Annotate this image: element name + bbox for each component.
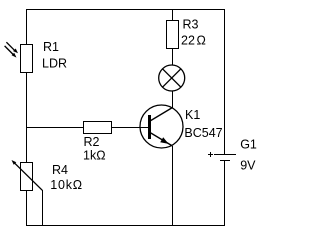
svg-text:9V: 9V <box>240 159 256 173</box>
wire left branch middle <box>26 72 27 163</box>
battery plus sign <box>208 152 213 157</box>
svg-text:K1: K1 <box>185 108 200 122</box>
resistor R1 (LDR) body <box>21 45 33 73</box>
wire R2 left lead <box>26 127 84 128</box>
battery G1 negative plate <box>220 160 230 161</box>
wire R2 right lead <box>111 127 149 128</box>
wire lamp to collector <box>172 91 173 108</box>
wire top rail <box>26 9 225 10</box>
resistor R2 body <box>84 122 112 134</box>
svg-text:1kΩ: 1kΩ <box>83 149 106 163</box>
transistor K1 base bar <box>148 115 151 139</box>
svg-text:10kΩ: 10kΩ <box>50 178 83 192</box>
wire left branch lower <box>26 190 27 226</box>
wire emitter to bottom rail <box>172 146 173 226</box>
wire left branch upper <box>26 9 27 45</box>
potentiometer R4 wiper arrow <box>12 160 43 190</box>
battery G1 positive plate <box>214 154 236 155</box>
svg-text:R2: R2 <box>84 135 100 149</box>
wire R3 top lead <box>172 9 173 21</box>
svg-text:R1: R1 <box>43 40 59 54</box>
light arrow 2 into R1 <box>5 46 17 58</box>
svg-text:BC547: BC547 <box>184 126 222 140</box>
wire bottom rail <box>26 225 225 226</box>
svg-text:R4: R4 <box>52 163 68 177</box>
transistor K1 emitter arrowhead <box>160 137 168 144</box>
wire R4 wiper to bottom rail <box>42 190 43 226</box>
resistor R3 body <box>167 21 179 49</box>
svg-text:R3: R3 <box>183 18 199 32</box>
potentiometer R4 body <box>21 163 33 191</box>
transistor K1 circle <box>140 105 183 148</box>
lamp <box>159 65 185 91</box>
transistor K1 emitter line <box>150 133 173 147</box>
light arrow 1 into R1 <box>6 42 18 53</box>
wire right branch lower <box>224 160 225 226</box>
wire right branch upper <box>224 9 225 155</box>
svg-text:LDR: LDR <box>42 56 67 70</box>
transistor K1 collector line <box>150 108 173 122</box>
svg-text:22Ω: 22Ω <box>181 34 206 48</box>
svg-text:G1: G1 <box>240 137 257 151</box>
wire R3 to lamp <box>172 48 173 66</box>
